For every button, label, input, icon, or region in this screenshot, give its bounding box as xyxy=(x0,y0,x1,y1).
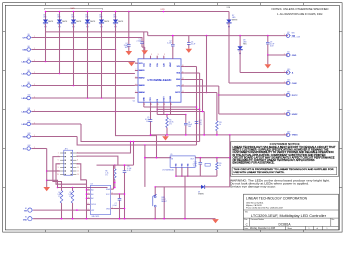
svg-text:DVCC: DVCC xyxy=(175,92,181,94)
svg-text:GND: GND xyxy=(23,219,28,221)
svg-text:2: 2 xyxy=(114,24,115,26)
svg-text:ENU: ENU xyxy=(176,79,181,81)
svg-text:U3: U3 xyxy=(91,184,93,186)
svg-text:R6: R6 xyxy=(105,170,107,172)
svg-text:E13: E13 xyxy=(28,133,31,135)
svg-text:2: 2 xyxy=(72,24,73,26)
svg-text:SCL: SCL xyxy=(177,66,181,68)
svg-text:RESET: RESET xyxy=(161,201,166,203)
svg-text:WHITE: WHITE xyxy=(104,21,109,23)
svg-text:OR RELIABILITY. CONTACT LINEAR: OR RELIABILITY. CONTACT LINEAR TECHNOLOG… xyxy=(233,159,316,162)
svg-text:E18: E18 xyxy=(288,111,291,113)
svg-text:CAM: CAM xyxy=(292,82,297,85)
svg-text:2.9V - 4.5V: 2.9V - 4.5V xyxy=(292,36,301,38)
svg-text:Phone: (408) 432-1900 Fax: (4: Phone: (408) 432-1900 Fax: (408) 434-050… xyxy=(246,208,283,210)
svg-text:4.7uF: 4.7uF xyxy=(193,163,197,165)
svg-text:Milpitas, CA 95035: Milpitas, CA 95035 xyxy=(246,204,262,207)
svg-text:2.2uF: 2.2uF xyxy=(167,42,171,44)
svg-text:C7: C7 xyxy=(115,203,117,205)
svg-text:WHITE: WHITE xyxy=(76,21,81,23)
svg-text:E3: E3 xyxy=(288,32,290,34)
svg-text:WHITE: WHITE xyxy=(48,21,53,23)
svg-text:Size: Size xyxy=(244,219,247,221)
svg-text:2: 2 xyxy=(227,24,228,26)
svg-text:GND: GND xyxy=(22,49,27,51)
svg-text:A1: A1 xyxy=(91,193,93,196)
svg-text:Title: Title xyxy=(245,210,248,213)
svg-text:GND: GND xyxy=(182,164,184,167)
svg-text:1k: 1k xyxy=(219,124,221,126)
svg-text:E9: E9 xyxy=(28,82,30,84)
svg-text:VREG: VREG xyxy=(292,135,298,137)
svg-text:GND: GND xyxy=(292,55,297,57)
svg-text:LED3: LED3 xyxy=(22,85,28,87)
svg-text:WHITE: WHITE xyxy=(232,19,238,21)
svg-text:WHITE: WHITE xyxy=(118,21,123,23)
svg-text:E16: E16 xyxy=(288,80,291,82)
svg-text:LTC3209-1EUF, Multidisplay LED: LTC3209-1EUF, Multidisplay LED Controlle… xyxy=(251,214,327,218)
svg-text:SW1: SW1 xyxy=(161,197,165,199)
svg-text:4.7uF: 4.7uF xyxy=(127,168,131,170)
svg-text:C: C xyxy=(246,222,248,226)
svg-text:LED5: LED5 xyxy=(22,111,28,113)
svg-text:Monday, November 14, 2005: Monday, November 14, 2005 xyxy=(250,227,276,230)
svg-text:GND: GND xyxy=(176,164,178,167)
svg-text:2: 2 xyxy=(238,51,239,53)
svg-text:U1: U1 xyxy=(133,100,135,102)
svg-text:5.1k: 5.1k xyxy=(57,194,60,196)
svg-text:C10: C10 xyxy=(194,161,197,163)
svg-text:D9: D9 xyxy=(198,191,200,193)
svg-text:LT1761ES5-SD: LT1761ES5-SD xyxy=(162,169,174,171)
svg-text:GND: GND xyxy=(143,97,145,102)
svg-text:LINEAR TECHNOLOGY HAS MADE A B: LINEAR TECHNOLOGY HAS MADE A BEST EFFORT… xyxy=(233,146,337,149)
svg-text:SCLK: SCLK xyxy=(91,204,96,206)
svg-text:Serious eye damage may occur.: Serious eye damage may occur. xyxy=(230,186,276,189)
svg-text:ENGINEERING FOR ASSISTANCE.: ENGINEERING FOR ASSISTANCE. xyxy=(233,162,275,165)
svg-text:THIS CIRCUIT IS PROPRIETARY TO: THIS CIRCUIT IS PROPRIETARY TO LINEAR TE… xyxy=(234,168,334,171)
svg-text:2: 2 xyxy=(86,24,87,26)
svg-text:UPS: UPS xyxy=(161,9,166,11)
svg-text:CUSTOMER'S RESPONSIBILITY TO V: CUSTOMER'S RESPONSIBILITY TO VERIFY PROP… xyxy=(233,151,334,154)
svg-text:E5: E5 xyxy=(28,34,30,36)
svg-text:HNDF: HNDF xyxy=(292,114,299,116)
svg-text:RSET: RSET xyxy=(163,96,165,102)
svg-text:CPO: CPO xyxy=(150,97,152,102)
svg-text:MAIN4: MAIN4 xyxy=(139,91,145,94)
svg-text:R9: R9 xyxy=(219,163,221,165)
svg-text:1.1k: 1.1k xyxy=(105,172,108,174)
svg-text:1. ALL RESISTORS ARE IN OHMS,: 1. ALL RESISTORS ARE IN OHMS, 0402. xyxy=(277,12,323,16)
svg-text:5.1k: 5.1k xyxy=(68,194,71,196)
svg-text:1: 1 xyxy=(327,228,328,230)
svg-text:E7: E7 xyxy=(28,58,30,60)
svg-text:1k: 1k xyxy=(219,165,221,167)
svg-text:LED6: LED6 xyxy=(22,124,28,126)
svg-text:GREEN: GREEN xyxy=(198,193,205,195)
svg-text:SDA: SDA xyxy=(23,135,28,138)
svg-text:LED1: LED1 xyxy=(22,61,28,63)
svg-text:E6: E6 xyxy=(28,46,30,48)
svg-text:1: 1 xyxy=(309,228,310,230)
svg-text:USE WITH LINEAR TECHNOLOGY PAR: USE WITH LINEAR TECHNOLOGY PARTS. xyxy=(234,171,285,174)
svg-text:Sheet: Sheet xyxy=(288,227,293,230)
svg-text:2.2uF: 2.2uF xyxy=(136,41,140,43)
svg-text:E12: E12 xyxy=(28,121,31,123)
svg-text:E4: E4 xyxy=(288,52,290,54)
svg-text:A0: A0 xyxy=(91,189,93,192)
svg-text:0.1uF: 0.1uF xyxy=(113,205,117,207)
svg-text:E10: E10 xyxy=(28,95,31,97)
svg-text:MAIN1: MAIN1 xyxy=(139,69,145,72)
svg-text:MAIN2: MAIN2 xyxy=(139,77,145,80)
svg-text:WHITE: WHITE xyxy=(90,21,95,23)
svg-text:R5: R5 xyxy=(69,192,71,194)
svg-text:1630 McCarthy Blvd.: 1630 McCarthy Blvd. xyxy=(246,202,264,205)
svg-text:LED4: LED4 xyxy=(22,97,28,100)
svg-text:C8: C8 xyxy=(127,166,129,168)
svg-text:E19: E19 xyxy=(288,131,291,133)
svg-text:DGND: DGND xyxy=(170,95,172,101)
svg-text:U5: U5 xyxy=(170,154,172,156)
svg-text:E15: E15 xyxy=(288,69,291,71)
svg-text:NOTES: UNLESS OTHERWISE SPECIF: NOTES: UNLESS OTHERWISE SPECIFIED xyxy=(272,7,329,11)
svg-text:E8: E8 xyxy=(28,70,30,72)
svg-text:LTC3209-1EUF: LTC3209-1EUF xyxy=(148,80,173,82)
svg-text:0.1uF: 0.1uF xyxy=(191,44,195,46)
svg-text:R4: R4 xyxy=(58,192,60,194)
svg-text:VBAT: VBAT xyxy=(169,61,172,67)
svg-text:E11: E11 xyxy=(28,108,31,110)
svg-text:UPS: UPS xyxy=(23,37,28,39)
svg-text:DC881A: DC881A xyxy=(278,222,291,226)
svg-text:JP1: JP1 xyxy=(65,148,68,150)
svg-text:GND: GND xyxy=(187,164,189,167)
svg-text:CUSTOMER NOTICE: CUSTOMER NOTICE xyxy=(270,142,300,146)
svg-text:IN THE ACTUAL APPLICATION. COM: IN THE ACTUAL APPLICATION. COMPONENT SUB… xyxy=(233,154,326,157)
svg-text:Date:: Date: xyxy=(244,227,249,230)
svg-text:24LC025: 24LC025 xyxy=(92,216,100,218)
svg-text:LED2: LED2 xyxy=(22,73,28,75)
svg-text:A2: A2 xyxy=(91,197,93,200)
svg-text:Rev: Rev xyxy=(332,219,335,221)
svg-text:LINEAR TECHNOLOGY CORPORATION: LINEAR TECHNOLOGY CORPORATION xyxy=(246,195,307,200)
svg-text:E14: E14 xyxy=(28,145,31,147)
svg-text:CIRCUIT BOARD LAYOUT MAY SIGNI: CIRCUIT BOARD LAYOUT MAY SIGNIFICANTLY A… xyxy=(233,156,336,159)
svg-text:MEETS CUSTOMER -SUPPLIED SPECI: MEETS CUSTOMER -SUPPLIED SPECIFICATIONS;… xyxy=(233,149,330,152)
svg-text:E17: E17 xyxy=(288,92,291,94)
svg-text:WHITE: WHITE xyxy=(62,21,67,23)
svg-text:2: 2 xyxy=(58,24,59,26)
svg-text:2: 2 xyxy=(44,24,45,26)
svg-text:MAIN3: MAIN3 xyxy=(139,84,145,87)
svg-text:2: 2 xyxy=(100,24,101,26)
svg-text:DVCC: DVCC xyxy=(292,95,298,97)
